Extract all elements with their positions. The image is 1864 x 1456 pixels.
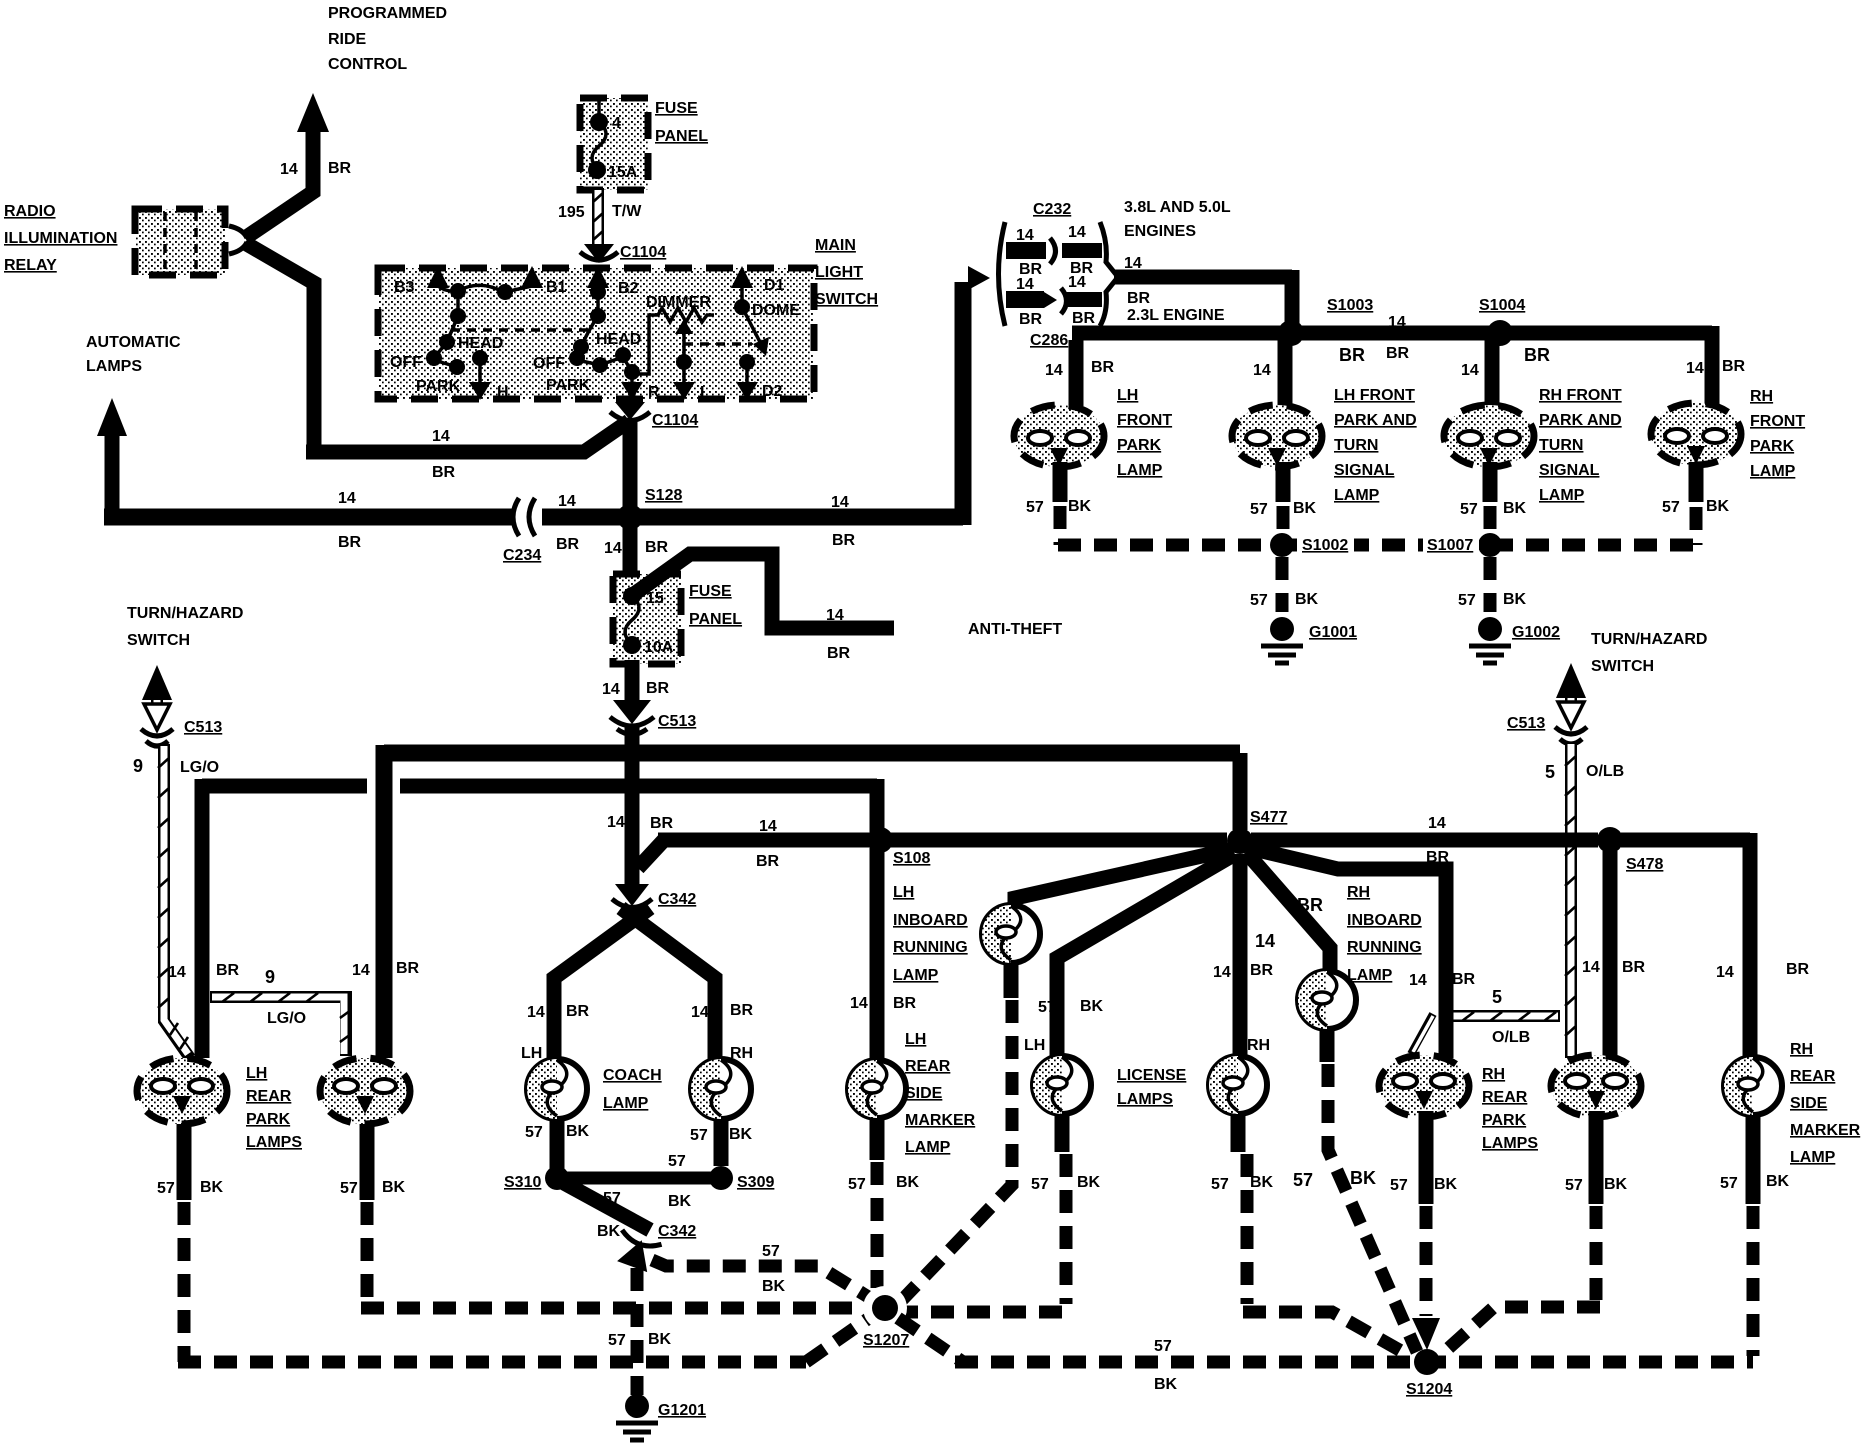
labels on S1003-S1004 bus (1339, 314, 1550, 365)
svg-text:BR: BR (1091, 359, 1115, 376)
svg-text:PARK: PARK (1482, 1112, 1527, 1129)
svg-text:LAMP: LAMP (1334, 487, 1380, 504)
svg-text:LAMP: LAMP (603, 1095, 649, 1112)
text 2.3L ENGINE / C286 (1030, 307, 1225, 349)
wire RH park2 BK to S1204 (1440, 1206, 1600, 1356)
svg-text:C1104: C1104 (652, 412, 698, 429)
svg-text:DOME: DOME (752, 302, 800, 319)
svg-text:FUSE: FUSE (655, 100, 698, 117)
svg-text:BK: BK (1154, 1376, 1178, 1393)
labels OFF PARK HEAD (mid) (533, 331, 641, 394)
wire lamp2 BK to bus 1 (361, 1202, 862, 1308)
wire S477 ray to RH inboard lamp (1246, 852, 1330, 972)
svg-text:57: 57 (1154, 1338, 1172, 1355)
wire LG/O striped branch to lamp 2 (210, 993, 351, 1056)
fuse 15 10A (623, 587, 674, 656)
wire RH license BK to S1204 (1243, 1154, 1410, 1356)
svg-text:195: 195 (558, 204, 585, 221)
splice S128 (617, 487, 682, 530)
svg-text:REAR: REAR (905, 1058, 951, 1075)
splice S1207 (863, 1286, 909, 1349)
svg-text:RH: RH (1247, 1037, 1270, 1054)
svg-text:BK: BK (648, 1331, 672, 1348)
svg-text:BR: BR (730, 1002, 754, 1019)
wire RH marker BK to bus (1747, 1206, 1760, 1356)
svg-text:14: 14 (280, 161, 298, 178)
svg-text:14: 14 (759, 818, 777, 835)
svg-text:57: 57 (603, 1190, 621, 1207)
svg-text:14: 14 (1045, 362, 1063, 379)
svg-text:PANEL: PANEL (689, 611, 742, 628)
svg-text:INBOARD: INBOARD (893, 912, 968, 929)
lamp coach LH (527, 1059, 587, 1119)
switch pin B1 (521, 266, 567, 296)
svg-text:O/LB: O/LB (1586, 763, 1624, 780)
svg-text:BR: BR (893, 995, 917, 1012)
svg-text:RELAY: RELAY (4, 257, 57, 274)
LH license BK stub (1031, 1114, 1101, 1193)
svg-text:BK: BK (566, 1123, 590, 1140)
RH rear park lamp BK stubs (1426, 1111, 1596, 1204)
svg-text:RH FRONT: RH FRONT (1539, 387, 1622, 404)
svg-text:BR: BR (646, 680, 670, 697)
label 14 BR (right run) (831, 494, 856, 549)
wire S108 down to LH side marker (850, 848, 917, 1058)
svg-text:INBOARD: INBOARD (1347, 912, 1422, 929)
svg-text:LH: LH (521, 1045, 542, 1062)
lamp connector LH rear park 2 (320, 1058, 410, 1124)
svg-text:14: 14 (1461, 362, 1479, 379)
svg-text:TURN: TURN (1539, 437, 1583, 454)
svg-text:FRONT: FRONT (1750, 413, 1805, 430)
wire C1104 to S128 (623, 418, 638, 517)
svg-text:57: 57 (1250, 501, 1268, 518)
svg-text:RH: RH (1482, 1066, 1505, 1083)
svg-text:D2: D2 (762, 383, 783, 400)
svg-text:D1: D1 (764, 277, 785, 294)
text AUTOMATIC LAMPS (86, 334, 181, 375)
switch B2 wafer contacts (569, 284, 632, 373)
svg-text:57: 57 (1458, 592, 1476, 609)
lamp LH side marker (848, 1060, 906, 1118)
svg-text:BK: BK (1503, 500, 1527, 517)
ground G1201 (616, 1394, 706, 1440)
splice S108 (867, 827, 930, 867)
svg-text:PARK: PARK (546, 377, 591, 394)
svg-text:LH: LH (1024, 1037, 1045, 1054)
svg-text:HEAD: HEAD (596, 331, 641, 348)
svg-text:57: 57 (525, 1124, 543, 1141)
svg-text:RADIO: RADIO (4, 203, 56, 220)
svg-text:MARKER: MARKER (1790, 1122, 1861, 1139)
svg-text:5: 5 (1545, 762, 1555, 782)
wire O/LB striped branch to RH rear park lamp 1 (1411, 1012, 1560, 1054)
switch pin H arrow (469, 358, 509, 401)
svg-text:57: 57 (340, 1180, 358, 1197)
wire S128 down to fuse panel (623, 524, 638, 592)
svg-text:BK: BK (1250, 1174, 1274, 1191)
svg-text:14: 14 (607, 814, 625, 831)
svg-text:LG/O: LG/O (180, 759, 219, 776)
svg-text:LICENSE: LICENSE (1117, 1067, 1187, 1084)
svg-text:14: 14 (602, 681, 620, 698)
dimmer rheostat (632, 294, 714, 374)
svg-text:C234: C234 (503, 547, 541, 564)
svg-text:C513: C513 (658, 713, 696, 730)
RH inboard BK stub (1293, 1029, 1376, 1190)
svg-text:57: 57 (1026, 499, 1044, 516)
svg-text:3.8L AND 5.0L: 3.8L AND 5.0L (1124, 199, 1231, 216)
svg-text:57: 57 (1390, 1177, 1408, 1194)
svg-text:BR: BR (1622, 959, 1646, 976)
svg-text:BR: BR (432, 464, 456, 481)
splice S1003 (1278, 297, 1373, 346)
svg-text:RH: RH (1790, 1041, 1813, 1058)
wire relay to main light switch (245, 243, 629, 452)
svg-text:PARK: PARK (1117, 437, 1162, 454)
svg-text:B1: B1 (546, 279, 567, 296)
svg-text:14: 14 (1582, 959, 1600, 976)
label 14 BR (engines wire) (1124, 255, 1151, 307)
svg-text:BK: BK (1080, 998, 1104, 1015)
svg-text:S477: S477 (1250, 809, 1287, 826)
wire S477 to S478 (1251, 815, 1598, 866)
text COACH LAMP (603, 1067, 662, 1112)
svg-text:AUTOMATIC: AUTOMATIC (86, 334, 181, 351)
wire to RH front park and turn lamp (1461, 340, 1492, 406)
svg-text:PARK: PARK (1750, 438, 1795, 455)
LH inboard BK stub (1011, 963, 1104, 1016)
svg-text:SIDE: SIDE (1790, 1095, 1828, 1112)
svg-text:S1002: S1002 (1302, 537, 1348, 554)
wire S477 ray to RH rear park lamp 1 (1249, 848, 1476, 1058)
svg-text:BR: BR (1072, 310, 1096, 327)
text RH FRONT PARK LAMP (1750, 388, 1805, 480)
connector C232 (968, 201, 1118, 328)
svg-text:BR: BR (756, 853, 780, 870)
svg-text:C513: C513 (1507, 715, 1545, 732)
svg-text:REAR: REAR (246, 1088, 292, 1105)
splice S1004 (1479, 297, 1525, 346)
wire S310 to C342 (diagonal) (564, 1183, 650, 1240)
labels 57 BK RH rear park (1390, 1176, 1628, 1194)
svg-text:14: 14 (432, 428, 450, 445)
svg-text:SIGNAL: SIGNAL (1539, 462, 1600, 479)
svg-text:MAIN: MAIN (815, 237, 856, 254)
svg-text:14: 14 (1253, 362, 1271, 379)
labels 57 BK LH rear park (157, 1179, 406, 1197)
svg-text:REAR: REAR (1482, 1089, 1528, 1106)
text LH REAR SIDE MARKER LAMP (905, 1031, 976, 1156)
svg-text:BK: BK (1706, 498, 1730, 515)
svg-text:ENGINES: ENGINES (1124, 223, 1196, 240)
switch dashed link 2 (684, 342, 752, 346)
svg-text:LG/O: LG/O (267, 1010, 306, 1027)
svg-text:I: I (700, 384, 704, 401)
svg-text:S108: S108 (893, 850, 930, 867)
wire BK dashed front bus (1058, 506, 1696, 545)
wire S1002 to G1001 (1250, 557, 1319, 612)
svg-text:BK: BK (1350, 1168, 1376, 1188)
svg-text:BK: BK (1766, 1173, 1790, 1190)
switch DOME contact (734, 286, 800, 356)
svg-text:5: 5 (1492, 987, 1502, 1007)
svg-text:BR: BR (216, 962, 240, 979)
svg-text:57: 57 (157, 1180, 175, 1197)
lamp connector LH rear park 1 (137, 1058, 227, 1124)
text RH INBOARD RUNNING LAMP (1347, 884, 1422, 984)
text PROGRAMMED RIDE CONTROL (328, 5, 447, 73)
svg-text:BK: BK (729, 1126, 753, 1143)
svg-text:REAR: REAR (1790, 1068, 1836, 1085)
text LH FRONT PARK AND TURN SIGNAL LAMP (1334, 387, 1417, 504)
wire main bus to S128 (104, 509, 955, 526)
RH license BK stub (1211, 1114, 1274, 1193)
svg-text:S1004: S1004 (1479, 297, 1525, 314)
svg-text:BR: BR (827, 645, 851, 662)
svg-text:14: 14 (168, 964, 186, 981)
lamp RH side marker (1724, 1057, 1782, 1115)
svg-text:BR: BR (1339, 345, 1365, 365)
svg-text:14: 14 (691, 1004, 709, 1021)
svg-text:LAMP: LAMP (1539, 487, 1585, 504)
svg-text:14: 14 (1124, 255, 1142, 272)
svg-text:LH: LH (893, 884, 914, 901)
svg-text:BK: BK (1068, 498, 1092, 515)
svg-text:G1201: G1201 (658, 1402, 706, 1419)
svg-text:57: 57 (1662, 499, 1680, 516)
label 14 BR (C1104 to S128) (604, 539, 669, 557)
switch pin B2 (587, 266, 639, 297)
svg-text:BK: BK (1503, 591, 1527, 608)
svg-text:BR: BR (1452, 971, 1476, 988)
wire branch to S108 (607, 814, 872, 870)
svg-text:14: 14 (527, 1004, 545, 1021)
svg-text:BK: BK (1077, 1174, 1101, 1191)
LH rear park lamp BK stubs (184, 1124, 367, 1200)
wire LG/O striped (left) (158, 744, 190, 1058)
label 9 LG/O (branch) (265, 967, 306, 1027)
lamp connector LH front park (1014, 405, 1104, 467)
text LH INBOARD RUNNING LAMP (893, 884, 968, 984)
wire S1007 to G1002 (1458, 557, 1527, 612)
svg-text:COACH: COACH (603, 1067, 662, 1084)
svg-text:BR: BR (1019, 311, 1043, 328)
svg-text:LAMPS: LAMPS (246, 1134, 302, 1151)
svg-text:BR: BR (1524, 345, 1550, 365)
svg-text:SIGNAL: SIGNAL (1334, 462, 1395, 479)
svg-text:BK: BK (668, 1193, 692, 1210)
svg-text:LAMP: LAMP (1750, 463, 1796, 480)
main light switch box (378, 268, 814, 399)
svg-text:PANEL: PANEL (655, 128, 708, 145)
svg-text:14: 14 (352, 962, 370, 979)
svg-text:BR: BR (1250, 962, 1274, 979)
labels 57 BK front lamps (1026, 498, 1730, 518)
svg-text:B3: B3 (394, 279, 415, 296)
svg-text:C1104: C1104 (620, 244, 666, 261)
svg-text:10A: 10A (644, 639, 674, 656)
svg-text:BR: BR (328, 160, 352, 177)
lamp connector RH rear park 2 (1551, 1055, 1641, 1117)
svg-text:S478: S478 (1626, 856, 1663, 873)
svg-text:LH FRONT: LH FRONT (1334, 387, 1415, 404)
wire LH license BK to S1207 (902, 1154, 1066, 1312)
text FUSE PANEL (655, 100, 708, 145)
svg-text:BR: BR (556, 536, 580, 553)
wire to LH front park lamp (1045, 340, 1115, 406)
lamp connector RH front park (1651, 403, 1741, 465)
wire LH inboard BK to S1207 (902, 1000, 1012, 1300)
svg-text:S128: S128 (645, 487, 682, 504)
lamp connector RH rear park 1 (1379, 1055, 1469, 1117)
switch pin D1 (731, 266, 785, 294)
svg-text:9: 9 (265, 967, 275, 987)
fuse panel 2 box (613, 574, 681, 664)
label 14 BR (left bus) (338, 490, 362, 551)
wire C342 to S1207 dashed (652, 1243, 870, 1298)
svg-text:C286: C286 (1030, 332, 1068, 349)
coach lamp stubs to S310 S309 (557, 1119, 721, 1172)
svg-text:T/W: T/W (612, 203, 642, 220)
svg-text:BR: BR (566, 1003, 590, 1020)
wire S108 to S477 (880, 833, 1227, 848)
svg-text:BR: BR (338, 534, 362, 551)
wire RH inboard BK to S1204 (1328, 1064, 1417, 1352)
splice S310 (504, 1166, 569, 1191)
connector C513 (right) arrow up (1507, 663, 1587, 744)
svg-text:BK: BK (382, 1179, 406, 1196)
label 14 BR (coach RH) (691, 1002, 754, 1062)
wire C513 to bus A (625, 726, 640, 884)
svg-text:HEAD: HEAD (458, 335, 503, 352)
svg-text:LAMP: LAMP (1347, 967, 1393, 984)
connector C513 (left) arrow up (141, 665, 222, 746)
switch pin R arrow (621, 364, 660, 401)
label 195 T/W (558, 203, 642, 221)
svg-text:14: 14 (558, 493, 576, 510)
svg-text:MARKER: MARKER (905, 1112, 976, 1129)
svg-text:BR: BR (645, 539, 669, 556)
wire S477 ray to LH inboard lamp (1015, 849, 1233, 906)
svg-text:ANTI-THEFT: ANTI-THEFT (968, 621, 1062, 638)
svg-text:S309: S309 (737, 1174, 774, 1191)
svg-text:OFF: OFF (533, 355, 565, 372)
svg-text:57: 57 (1720, 1175, 1738, 1192)
svg-text:FUSE: FUSE (689, 583, 732, 600)
svg-text:LIGHT: LIGHT (815, 264, 863, 281)
svg-text:RUNNING: RUNNING (1347, 939, 1422, 956)
svg-text:14: 14 (1213, 964, 1231, 981)
wire S478 to RH side marker (1621, 833, 1810, 1058)
svg-text:RIDE: RIDE (328, 31, 367, 48)
svg-text:OFF: OFF (390, 354, 422, 371)
ground G1002 (1469, 617, 1560, 663)
wire S478 down to RH rear park lamp 2 (1582, 851, 1646, 1058)
svg-text:TURN/HAZARD: TURN/HAZARD (1591, 631, 1707, 648)
wire S310 to S309 (557, 1153, 721, 1210)
svg-text:C232: C232 (1033, 201, 1071, 218)
label 14 BR (lamp1 feed) (168, 962, 240, 981)
svg-text:LH: LH (246, 1065, 267, 1082)
relay RADIO ILLUMINATION RELAY (4, 203, 117, 274)
splice S1204 (1406, 1349, 1452, 1398)
svg-text:BR: BR (832, 532, 856, 549)
svg-text:ILLUMINATION: ILLUMINATION (4, 230, 117, 247)
svg-text:4: 4 (612, 115, 621, 132)
wire bus A down to S477 (1233, 753, 1248, 830)
wire LH marker BK to S1207 (871, 1162, 884, 1288)
svg-text:57: 57 (1460, 501, 1478, 518)
splice S477 (1227, 809, 1287, 854)
wire O/LB striped (right) (1565, 742, 1576, 1058)
svg-text:14: 14 (1716, 964, 1734, 981)
svg-text:14: 14 (826, 607, 844, 624)
lamp connector RH front park and turn (1444, 405, 1534, 467)
lamp LH license (1024, 1037, 1091, 1114)
labels OFF PARK HEAD (left) (390, 335, 503, 395)
svg-text:S1207: S1207 (863, 1332, 909, 1349)
splice S1002 (1270, 533, 1354, 557)
svg-text:14: 14 (831, 494, 849, 511)
wire automatic lamps (arrow up) (97, 398, 127, 517)
svg-text:BR: BR (396, 960, 420, 977)
lamp LH inboard running (982, 905, 1040, 963)
switch dashed link (451, 328, 588, 332)
svg-text:FRONT: FRONT (1117, 412, 1172, 429)
connector at relay (229, 226, 247, 254)
svg-text:BK: BK (1434, 1176, 1458, 1193)
label 14 BR (280, 160, 352, 178)
svg-text:PARK AND: PARK AND (1334, 412, 1417, 429)
svg-text:57: 57 (668, 1153, 686, 1170)
text FUSE PANEL 2 (689, 583, 742, 628)
label 14 BR (right of C234) (556, 493, 580, 553)
svg-text:S1204: S1204 (1406, 1381, 1452, 1398)
svg-text:PROGRAMMED: PROGRAMMED (328, 5, 447, 22)
label 14 BR (horizontal run) (432, 428, 456, 481)
svg-text:14: 14 (1428, 815, 1446, 832)
svg-text:LAMP: LAMP (893, 967, 939, 984)
svg-text:14: 14 (1388, 314, 1406, 331)
wire to LH front park and turn lamp (1253, 340, 1285, 406)
svg-text:SWITCH: SWITCH (815, 291, 878, 308)
svg-text:S1003: S1003 (1327, 297, 1373, 314)
text 3.8L AND 5.0L ENGINES (1124, 199, 1231, 240)
svg-text:LAMPS: LAMPS (1117, 1091, 1173, 1108)
svg-text:BK: BK (597, 1223, 621, 1240)
svg-text:LAMPS: LAMPS (1482, 1135, 1538, 1152)
svg-text:14: 14 (1068, 224, 1086, 241)
svg-text:RH: RH (1750, 388, 1773, 405)
svg-text:57: 57 (762, 1243, 780, 1260)
svg-text:G1002: G1002 (1512, 624, 1560, 641)
turn/hazard switch text (left) (127, 605, 243, 649)
wire C342 down to G1201 (608, 1268, 672, 1395)
svg-text:57: 57 (1565, 1177, 1583, 1194)
svg-text:57: 57 (848, 1176, 866, 1193)
wire C286 bus S1003 S1004 (1072, 326, 1712, 405)
svg-text:BR: BR (1786, 961, 1810, 978)
svg-text:14: 14 (604, 540, 622, 557)
label 5 O/LB (branch) (1492, 987, 1530, 1046)
relay box (135, 209, 225, 275)
LH side marker BK stub (848, 1120, 920, 1193)
svg-text:LAMP: LAMP (905, 1139, 951, 1156)
svg-text:BR: BR (1127, 290, 1151, 307)
svg-text:LH: LH (905, 1031, 926, 1048)
svg-text:14: 14 (1255, 931, 1275, 951)
